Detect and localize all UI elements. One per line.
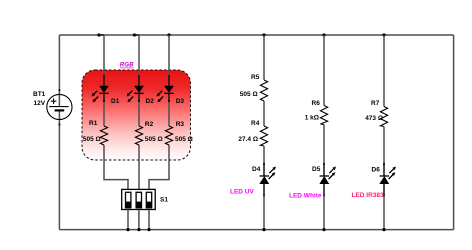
svg-text:RGB: RGB [120, 62, 134, 69]
svg-text:D3: D3 [176, 98, 185, 105]
LED D1 [92, 86, 109, 102]
svg-text:D5: D5 [312, 166, 321, 173]
wire stub dot to D1 column [99, 34, 104, 36]
wire D2 column upper [138, 35, 140, 75]
LED D3 [157, 86, 174, 102]
RGB group box [82, 70, 191, 160]
wire R6 to D5 [323, 125, 325, 165]
node junction dot top R7 [382, 33, 385, 36]
node junction dot bottom D4 [262, 228, 265, 231]
wire D2 to R2 [138, 93, 140, 101]
svg-text:12V: 12V [34, 100, 46, 107]
node junction dot top D3 [167, 33, 170, 36]
wire R7 to D6 [383, 127, 385, 165]
wire R5 to R4 [263, 101, 265, 126]
svg-text:505 Ω: 505 Ω [175, 136, 193, 143]
wire bottom bus [59, 229, 453, 231]
wire R3 to switch pin 3 [149, 145, 169, 189]
svg-text:LED UV: LED UV [230, 188, 255, 195]
resistor R7 [380, 107, 387, 127]
svg-text:473 Ω: 473 Ω [365, 115, 383, 122]
switch S1 [122, 189, 156, 209]
wire D4 to bottom bus [263, 184, 265, 196]
svg-text:LED White: LED White [289, 193, 322, 200]
resistor R3 [165, 126, 172, 145]
node junction dot bottom switch pin 3 [147, 228, 150, 231]
svg-text:S1: S1 [160, 197, 168, 204]
svg-text:D4: D4 [252, 166, 261, 173]
wire R5 column upper [263, 35, 265, 80]
node junction dot top D2 [133, 33, 136, 36]
node junction dot bottom D6 [382, 228, 385, 231]
svg-text:D2: D2 [146, 98, 155, 105]
svg-text:1 kΩ: 1 kΩ [305, 115, 319, 122]
wire battery bottom lead [58, 110, 60, 229]
wire switch pin 2 to bottom bus [138, 210, 140, 230]
wire D1 to R1 [103, 93, 105, 101]
node junction dot bottom switch pin 2 [137, 228, 140, 231]
LED D6 [380, 163, 396, 197]
node junction dot top R5 [262, 33, 265, 36]
node junction dot top R6 [322, 33, 325, 36]
LED D5 [320, 163, 336, 197]
wire R4 to D4 [263, 146, 265, 164]
resistor R1 [100, 126, 107, 145]
wire D5 to bottom bus [323, 184, 325, 196]
wire R7 column upper [383, 35, 385, 107]
node junction dot top D1 [97, 33, 100, 36]
wire R6 column upper [323, 35, 325, 106]
svg-text:R5: R5 [251, 74, 260, 81]
svg-text:D1: D1 [111, 98, 120, 105]
svg-text:LED IR383: LED IR383 [352, 192, 385, 199]
resistor R2 [135, 126, 142, 145]
wire stub dot to D2 column [135, 34, 140, 36]
LED D4 [260, 163, 276, 197]
node junction dot bottom switch pin 1 [126, 228, 129, 231]
svg-text:505 Ω: 505 Ω [240, 91, 258, 98]
wire top bus [59, 34, 453, 36]
resistor R4 [260, 126, 267, 146]
resistor R5 [260, 80, 267, 101]
svg-text:R7: R7 [371, 100, 380, 107]
wire D3 to R3 [168, 93, 170, 101]
wire D3 column upper [168, 35, 170, 75]
battery BT1 [47, 89, 72, 126]
svg-text:R1: R1 [89, 120, 98, 127]
svg-text:505 Ω: 505 Ω [83, 136, 101, 143]
wire switch pin 1 to bottom bus [127, 210, 129, 230]
resistor R6 [320, 106, 327, 125]
wire R2 to switch pin 2 [138, 145, 140, 189]
svg-text:R3: R3 [176, 121, 185, 128]
svg-text:R4: R4 [251, 120, 260, 127]
svg-text:27.4 Ω: 27.4 Ω [238, 136, 258, 143]
svg-text:D6: D6 [372, 167, 381, 174]
wire battery top lead [58, 35, 60, 106]
wire D1 column upper [103, 35, 105, 75]
wire switch pin 3 to bottom bus [148, 210, 150, 230]
svg-text:505 Ω: 505 Ω [145, 136, 163, 143]
wire R1 to switch pin 1 [104, 145, 128, 189]
LED D2 [127, 86, 144, 102]
node junction dot bottom D5 [322, 228, 325, 231]
svg-text:R6: R6 [312, 100, 321, 107]
svg-text:BT1: BT1 [33, 91, 46, 98]
wire D6 to bottom bus [383, 184, 385, 196]
wire right edge [453, 35, 455, 230]
svg-text:R2: R2 [145, 121, 154, 128]
